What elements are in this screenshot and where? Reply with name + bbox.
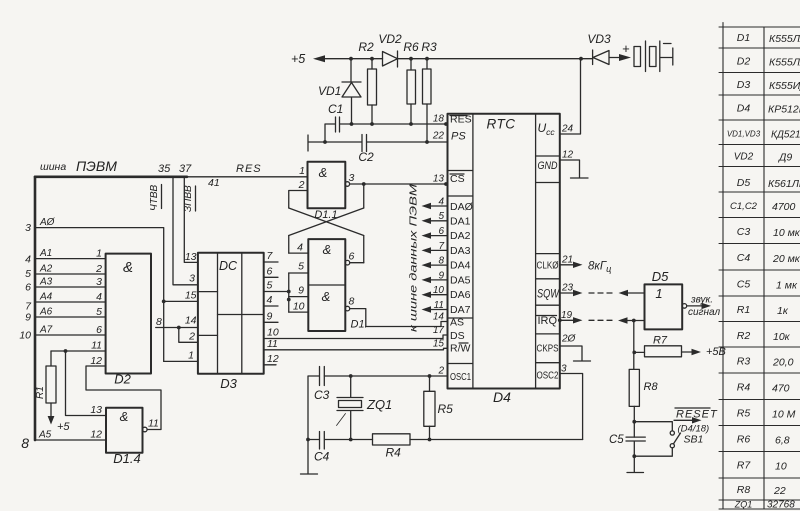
svg-text:4: 4 <box>267 294 273 306</box>
svg-text:12: 12 <box>90 429 102 441</box>
svg-text:D3: D3 <box>220 376 237 391</box>
svg-text:&: & <box>322 289 331 304</box>
svg-text:R2: R2 <box>737 330 751 342</box>
svg-text:R8: R8 <box>737 484 751 496</box>
svg-text:470: 470 <box>772 383 790 395</box>
svg-text:15: 15 <box>433 339 445 350</box>
svg-text:A1: A1 <box>39 248 52 259</box>
svg-text:+: + <box>622 41 630 56</box>
svg-text:C4: C4 <box>314 450 330 464</box>
svg-text:10 М: 10 М <box>772 409 796 421</box>
svg-text:A2: A2 <box>39 264 53 275</box>
svg-text:11: 11 <box>434 300 444 311</box>
svg-text:19: 19 <box>561 310 573 321</box>
svg-text:C3: C3 <box>314 388 330 402</box>
svg-text:C1: C1 <box>328 102 343 116</box>
svg-text:AØ: AØ <box>39 217 56 228</box>
svg-text:&: & <box>319 165 328 180</box>
svg-text:ПЭВМ: ПЭВМ <box>76 158 117 174</box>
svg-text:3: 3 <box>189 273 195 285</box>
svg-text:C5: C5 <box>609 434 624 446</box>
svg-text:35: 35 <box>158 163 171 175</box>
svg-text:RES: RES <box>450 113 472 125</box>
svg-text:3: 3 <box>25 222 31 234</box>
svg-text:AS: AS <box>450 317 464 329</box>
svg-text:20 мк: 20 мк <box>772 253 800 265</box>
svg-text:14: 14 <box>433 312 445 323</box>
svg-text:К561ЛН2: К561ЛН2 <box>768 178 800 190</box>
svg-text:DA1: DA1 <box>450 216 471 228</box>
svg-text:CKPS: CKPS <box>537 343 559 355</box>
svg-text:D4: D4 <box>737 103 751 115</box>
svg-text:6: 6 <box>438 226 444 237</box>
svg-text:2: 2 <box>437 366 444 377</box>
svg-text:VD1: VD1 <box>318 84 341 98</box>
svg-text:A3: A3 <box>39 277 53 288</box>
svg-text:8: 8 <box>21 435 29 451</box>
svg-text:шина: шина <box>40 161 66 173</box>
svg-text:R/W: R/W <box>450 343 471 355</box>
svg-text:КР512ВИ1: КР512ВИ1 <box>768 104 800 116</box>
svg-text:10: 10 <box>433 285 445 296</box>
svg-text:DA2: DA2 <box>450 230 471 242</box>
svg-text:5: 5 <box>25 268 31 280</box>
svg-text:1 мк: 1 мк <box>776 280 798 292</box>
svg-text:ЗПВВ: ЗПВВ <box>183 185 194 212</box>
svg-text:R5: R5 <box>438 402 454 416</box>
svg-text:DA7: DA7 <box>450 304 471 316</box>
svg-text:10к: 10к <box>773 331 791 343</box>
svg-text:5: 5 <box>438 211 444 222</box>
svg-text:9: 9 <box>298 285 304 297</box>
svg-text:1: 1 <box>188 350 194 362</box>
svg-text:8: 8 <box>349 296 355 308</box>
svg-text:3: 3 <box>561 364 567 375</box>
svg-text:IRQ: IRQ <box>538 315 558 327</box>
svg-text:DAØ: DAØ <box>450 201 473 213</box>
svg-text:13: 13 <box>433 174 445 185</box>
svg-text:2Ø: 2Ø <box>561 334 577 345</box>
svg-text:PS: PS <box>451 131 466 143</box>
svg-text:D1: D1 <box>737 32 750 44</box>
svg-text:&: & <box>120 409 129 424</box>
svg-text:6: 6 <box>267 266 273 278</box>
svg-text:R1: R1 <box>737 304 750 316</box>
svg-text:3: 3 <box>349 172 355 184</box>
svg-text:R8: R8 <box>644 381 659 393</box>
svg-text:R4: R4 <box>386 446 402 460</box>
svg-text:+5В: +5В <box>706 346 726 358</box>
svg-text:CLKØ: CLKØ <box>537 260 559 272</box>
svg-text:ZQ1: ZQ1 <box>366 397 392 412</box>
svg-text:10 мк: 10 мк <box>773 227 800 239</box>
svg-text:6,8: 6,8 <box>775 435 790 447</box>
svg-text:22: 22 <box>432 131 445 142</box>
svg-text:10: 10 <box>19 330 31 342</box>
svg-text:A7: A7 <box>39 325 53 336</box>
svg-text:DA4: DA4 <box>450 260 471 272</box>
svg-text:к шине данных ПЭВМ: к шине данных ПЭВМ <box>409 183 420 332</box>
svg-text:17: 17 <box>433 325 445 336</box>
svg-text:VD3: VD3 <box>587 32 611 46</box>
svg-text:24: 24 <box>561 124 574 135</box>
svg-text:RESET: RESET <box>676 409 718 421</box>
svg-text:6: 6 <box>349 251 355 263</box>
svg-text:Д9: Д9 <box>778 152 792 164</box>
svg-text:R4: R4 <box>737 382 751 394</box>
svg-text:12: 12 <box>562 150 574 161</box>
svg-text:A6: A6 <box>39 307 53 318</box>
svg-text:2: 2 <box>298 179 305 191</box>
svg-text:D1.: D1. <box>351 319 368 331</box>
svg-text:5: 5 <box>267 280 273 292</box>
svg-text:D2: D2 <box>114 372 131 387</box>
svg-text:+5: +5 <box>291 52 305 66</box>
svg-text:VD1,VD3: VD1,VD3 <box>727 130 761 139</box>
svg-text:1: 1 <box>299 165 305 177</box>
svg-text:1: 1 <box>96 248 102 260</box>
svg-text:10: 10 <box>267 327 279 339</box>
svg-text:DA6: DA6 <box>450 289 471 301</box>
svg-text:C4: C4 <box>737 252 751 264</box>
svg-text:18: 18 <box>433 114 445 125</box>
svg-text:5: 5 <box>298 261 304 273</box>
svg-text:5: 5 <box>96 306 102 318</box>
svg-text:9: 9 <box>438 271 444 282</box>
svg-text:12: 12 <box>267 353 279 365</box>
svg-text:&: & <box>123 259 133 276</box>
svg-text:VD2: VD2 <box>734 152 754 163</box>
svg-text:8: 8 <box>156 316 162 328</box>
svg-text:К555ЛА3: К555ЛА3 <box>769 57 800 69</box>
svg-text:D5: D5 <box>737 177 751 189</box>
svg-text:9: 9 <box>25 312 31 324</box>
svg-text:A4: A4 <box>39 292 53 303</box>
svg-text:21: 21 <box>561 255 573 266</box>
svg-text:R1: R1 <box>35 386 46 399</box>
svg-text:8: 8 <box>438 256 444 267</box>
svg-text:R6: R6 <box>737 434 751 446</box>
svg-text:К555ИД7: К555ИД7 <box>769 80 800 92</box>
svg-text:11: 11 <box>267 338 278 350</box>
svg-text:10: 10 <box>775 461 787 473</box>
svg-text:RES: RES <box>236 163 262 175</box>
svg-text:32768: 32768 <box>767 500 795 511</box>
svg-text:20,0: 20,0 <box>772 357 794 369</box>
svg-text:41: 41 <box>208 177 220 189</box>
svg-text:9: 9 <box>267 311 273 323</box>
svg-text:К555ЛА3: К555ЛА3 <box>769 33 800 45</box>
svg-text:A5: A5 <box>38 430 52 441</box>
svg-text:4: 4 <box>438 197 444 208</box>
svg-text:2: 2 <box>188 331 195 343</box>
svg-text:SQW: SQW <box>537 289 560 301</box>
svg-text:звук.: звук. <box>690 295 713 306</box>
svg-text:12: 12 <box>90 355 102 367</box>
svg-text:КД521А: КД521А <box>771 130 800 141</box>
svg-text:DC: DC <box>219 259 238 273</box>
svg-text:D3: D3 <box>737 79 751 91</box>
svg-text:4: 4 <box>96 291 102 303</box>
svg-text:11: 11 <box>148 418 159 430</box>
svg-text:11: 11 <box>91 340 102 352</box>
svg-text:R5: R5 <box>737 408 751 420</box>
svg-text:D4: D4 <box>493 389 511 405</box>
svg-text:2: 2 <box>95 263 102 275</box>
svg-text:14: 14 <box>185 315 197 327</box>
svg-text:C2: C2 <box>358 150 374 164</box>
svg-text:22: 22 <box>773 485 786 497</box>
svg-text:1: 1 <box>655 286 662 301</box>
svg-text:GND: GND <box>538 160 558 172</box>
svg-text:CS: CS <box>450 173 465 185</box>
svg-text:7: 7 <box>438 241 444 252</box>
svg-text:RTC: RTC <box>486 117 515 132</box>
svg-text:OSC1: OSC1 <box>450 371 471 383</box>
svg-text:R3: R3 <box>421 40 437 54</box>
svg-text:C5: C5 <box>737 279 751 291</box>
svg-text:DS: DS <box>450 330 465 342</box>
svg-text:6: 6 <box>25 282 31 294</box>
svg-text:D1.4: D1.4 <box>113 451 140 466</box>
svg-text:23: 23 <box>561 283 574 294</box>
svg-text:1к: 1к <box>777 305 789 317</box>
svg-text:13: 13 <box>185 251 197 263</box>
svg-text:&: & <box>323 242 332 257</box>
svg-text:4: 4 <box>297 242 303 254</box>
svg-text:R3: R3 <box>737 356 751 368</box>
svg-text:3: 3 <box>96 276 102 288</box>
svg-text:ЧТВВ: ЧТВВ <box>149 184 160 211</box>
svg-text:VD2: VD2 <box>378 32 402 46</box>
svg-text:DA5: DA5 <box>450 275 471 287</box>
svg-text:10: 10 <box>293 301 305 313</box>
svg-text:D5: D5 <box>652 269 669 284</box>
svg-text:DA3: DA3 <box>450 245 471 257</box>
svg-text:OSC2: OSC2 <box>537 370 559 382</box>
svg-text:C3: C3 <box>737 226 751 238</box>
svg-text:R6: R6 <box>403 40 419 54</box>
svg-text:4700: 4700 <box>772 201 796 213</box>
svg-text:13: 13 <box>90 404 102 416</box>
svg-text:R7: R7 <box>653 335 668 347</box>
svg-text:ZQ1: ZQ1 <box>734 500 753 510</box>
svg-text:6: 6 <box>96 324 102 336</box>
svg-text:37: 37 <box>179 163 192 175</box>
svg-text:15: 15 <box>185 290 197 302</box>
svg-text:C1,C2: C1,C2 <box>730 201 758 212</box>
svg-text:R2: R2 <box>358 40 374 54</box>
svg-text:+5: +5 <box>57 421 70 433</box>
svg-text:R7: R7 <box>737 460 752 472</box>
svg-text:сигнал: сигнал <box>688 307 720 318</box>
svg-text:D1.1: D1.1 <box>314 209 337 221</box>
svg-text:4: 4 <box>25 254 31 266</box>
svg-text:SB1: SB1 <box>684 434 704 446</box>
svg-text:D2: D2 <box>737 56 751 68</box>
